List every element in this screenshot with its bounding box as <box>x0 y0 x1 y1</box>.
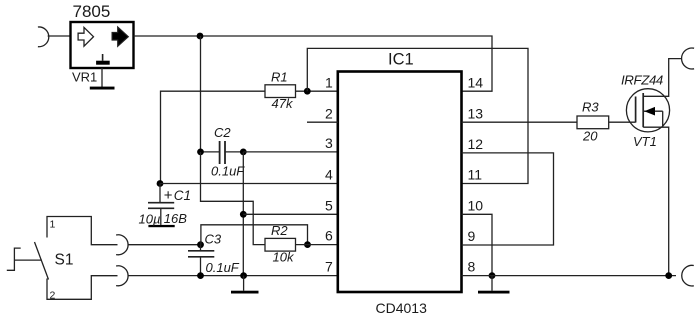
capacitor C1 <box>159 184 161 203</box>
node gnd junction left <box>240 272 247 279</box>
switch S1 plug connector <box>7 248 21 270</box>
wire R1 to pin 1 <box>296 90 338 92</box>
svg-text:+: + <box>164 187 173 204</box>
wire pin 8 rail <box>462 275 677 277</box>
capacitor C2 <box>201 151 220 153</box>
svg-text:0.1uF: 0.1uF <box>206 260 240 275</box>
svg-text:2: 2 <box>325 105 333 121</box>
wire drain to output connector <box>643 59 682 97</box>
wire pin 5 <box>243 213 337 215</box>
wire pin1 feedback loop to pin 11 <box>307 48 528 183</box>
svg-text:R2: R2 <box>271 223 288 238</box>
node C2 right junction <box>240 149 247 156</box>
svg-text:VR1: VR1 <box>72 70 97 85</box>
node C3 top junction <box>197 241 204 248</box>
wire pin 7 row <box>128 275 338 277</box>
svg-text:7805: 7805 <box>73 2 111 21</box>
solid arrow output symbol <box>112 27 128 46</box>
wire R2 to pin 6 <box>296 244 338 246</box>
wire +5V top rail to pin 14 <box>134 36 493 91</box>
resistor R1 <box>265 85 296 98</box>
svg-text:C1: C1 <box>174 188 191 203</box>
node pin4 junction <box>157 180 164 187</box>
wire upper S1 to C3 <box>128 244 201 246</box>
svg-text:10k: 10k <box>273 250 295 265</box>
svg-text:10: 10 <box>468 197 484 213</box>
svg-text:47k: 47k <box>272 96 294 111</box>
svg-text:20: 20 <box>582 129 598 144</box>
switch S1 blade <box>35 242 49 280</box>
svg-text:3: 3 <box>325 135 333 151</box>
node C3 bottom junction <box>197 272 204 279</box>
pin 10 wire down to pin 8 <box>462 214 493 275</box>
wire pin 3 <box>243 151 337 153</box>
wire VR1 to ground <box>101 68 103 87</box>
node C2 left junction <box>197 149 204 156</box>
wire C2 left bypass to R2 left <box>201 152 266 245</box>
resistor R2 <box>265 238 296 251</box>
svg-text:IC1: IC1 <box>388 50 414 68</box>
hollow arrow input symbol <box>78 27 93 46</box>
svg-text:R3: R3 <box>582 100 599 115</box>
svg-text:C2: C2 <box>214 125 231 140</box>
wire plug to blade <box>14 259 41 261</box>
connector output bottom right <box>682 265 694 286</box>
svg-text:C3: C3 <box>205 232 222 247</box>
svg-text:11: 11 <box>468 167 483 183</box>
connector output top right <box>682 48 695 69</box>
regulator VR1 7805 box <box>71 22 134 68</box>
svg-text:12: 12 <box>468 136 484 152</box>
pin 13 wire to R3 <box>462 121 578 123</box>
svg-text:9: 9 <box>468 228 476 244</box>
svg-text:16В: 16В <box>164 211 187 226</box>
node +5V rail junction <box>197 33 204 40</box>
node pin5 junction <box>240 211 247 218</box>
svg-text:6: 6 <box>325 228 333 244</box>
svg-text:4: 4 <box>325 167 333 183</box>
svg-text:IRFZ44: IRFZ44 <box>621 73 663 88</box>
connector lower S1 <box>116 266 128 286</box>
wire source to bottom rail <box>643 127 669 275</box>
node pin1 junction <box>304 88 311 95</box>
capacitor C3 <box>200 245 202 251</box>
IC IC1 CD4013 box <box>338 72 462 293</box>
wire input to VR1 <box>48 35 71 37</box>
svg-text:13: 13 <box>468 105 484 121</box>
wire R1 left / pin4 riser <box>161 91 266 183</box>
pin 12 wire <box>462 153 554 245</box>
svg-text:5: 5 <box>325 197 333 213</box>
ground left <box>231 291 259 294</box>
connector X1 input <box>38 27 49 47</box>
wire +5V rail down to C2 left <box>200 36 202 152</box>
wire to right ground <box>491 276 493 291</box>
node pin8 junction <box>489 272 496 279</box>
regulator inner ground pin symbol <box>102 54 104 61</box>
svg-text:10µ: 10µ <box>139 211 161 226</box>
connector upper S1 <box>116 235 128 255</box>
svg-text:1: 1 <box>50 219 56 231</box>
svg-text:2: 2 <box>50 290 56 302</box>
node pin6 junction <box>304 241 311 248</box>
wire to left ground <box>243 276 245 291</box>
wire bypass over R2 to pin6 <box>201 225 308 245</box>
wire C2 right down to gnd rail <box>242 152 244 276</box>
svg-text:7: 7 <box>325 259 333 275</box>
svg-text:S1: S1 <box>55 252 74 269</box>
node source rail junction <box>665 272 672 279</box>
svg-text:VT1: VT1 <box>633 134 657 149</box>
svg-text:R1: R1 <box>271 69 288 84</box>
switch S1 contact 1 path <box>47 217 118 245</box>
svg-text:1: 1 <box>325 74 333 90</box>
wire R3 to gate <box>609 121 636 123</box>
ground right <box>478 291 510 294</box>
switch S1 contact 2 path <box>47 276 118 300</box>
svg-text:8: 8 <box>468 259 476 275</box>
ground below VR1 <box>90 87 115 90</box>
svg-text:CD4013: CD4013 <box>376 300 428 316</box>
svg-text:14: 14 <box>468 74 484 90</box>
pin 2 stub <box>307 121 338 123</box>
transistor VT1 IRFZ44 <box>626 89 669 132</box>
svg-text:0.1uF: 0.1uF <box>211 164 245 179</box>
resistor R3 <box>577 116 609 129</box>
wire pin 4 <box>160 183 338 185</box>
